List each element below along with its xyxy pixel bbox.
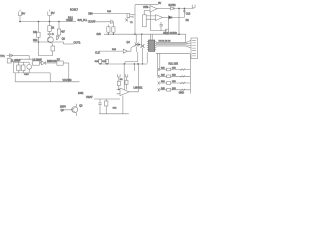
- op-amp U4: [117, 63, 144, 95]
- svg-text:10k: 10k: [33, 31, 38, 34]
- power flag right: [192, 5, 195, 9]
- crystal Y1: [125, 14, 135, 25]
- svg-text:3V3_PLL: 3V3_PLL: [78, 19, 89, 22]
- svg-text:LMV321: LMV321: [134, 87, 144, 90]
- svg-text:XIN: XIN: [88, 12, 92, 16]
- wire: input line: [14, 55, 30, 57]
- svg-text:22R: 22R: [172, 81, 176, 83]
- wire: long line right: [15, 81, 79, 83]
- svg-text:OUT1: OUT1: [74, 41, 81, 45]
- resistor R15: [95, 59, 102, 64]
- svg-text:L1 10uH: L1 10uH: [33, 59, 42, 62]
- capacitor C9: [105, 99, 108, 114]
- wire: mid line: [94, 98, 120, 100]
- svg-text:5V: 5V: [51, 11, 55, 15]
- resistor R7: [57, 59, 69, 66]
- svg-text:Q4: Q4: [127, 41, 131, 44]
- capacitor C8: [98, 99, 102, 114]
- ground drops: [15, 73, 50, 82]
- wire: top-left bus: [20, 21, 76, 23]
- IC U3: [147, 34, 157, 51]
- resistor RN2: [158, 75, 191, 78]
- capacitor C6: [160, 22, 164, 31]
- wire: [92, 13, 127, 15]
- resistor RN1: [158, 68, 191, 71]
- capacitor C2: [7, 59, 21, 64]
- node dot: [138, 44, 140, 46]
- wire: right out: [64, 43, 74, 45]
- resistor RN4: [158, 88, 191, 91]
- node junctions on bus: [19, 21, 60, 23]
- wire: diode2 drop: [168, 19, 170, 29]
- capacitor C4: [111, 20, 114, 27]
- svg-text:C31: C31: [113, 108, 118, 110]
- svg-text:XOUT: XOUT: [88, 19, 96, 23]
- svg-text:C12: C12: [186, 12, 191, 15]
- transistor Q6: [60, 104, 83, 116]
- power flag mid2: [125, 74, 128, 89]
- capacitor C1: [48, 33, 55, 37]
- wire: verticals down: [124, 64, 134, 90]
- mid net lines below IC: [100, 52, 148, 65]
- power flag V2: [48, 10, 55, 22]
- wire: base line: [33, 42, 64, 44]
- transistor Q1: [48, 36, 54, 43]
- wire to flag: [174, 7, 193, 9]
- capacitor C5: [183, 8, 186, 13]
- wire: left vertical: [13, 62, 15, 73]
- wire: IC out line: [156, 53, 190, 55]
- resistor R3: [57, 22, 65, 41]
- svg-text:100k: 100k: [78, 92, 84, 95]
- svg-text:Y1: Y1: [130, 22, 133, 24]
- svg-text:22R: 22R: [172, 88, 176, 90]
- svg-text:22R: 22R: [172, 68, 176, 70]
- diode D2: [169, 8, 185, 19]
- op-amp U1B: [146, 15, 168, 21]
- svg-text:R20: R20: [107, 11, 112, 13]
- resistor R5: [17, 62, 20, 73]
- power flag mid1: [117, 74, 120, 89]
- resistor R16: [102, 59, 108, 64]
- svg-text:R21 22R: R21 22R: [169, 63, 179, 66]
- svg-text:R16: R16: [102, 61, 107, 63]
- svg-text:BAT54: BAT54: [169, 4, 177, 7]
- wire: IC to rows verticals: [158, 53, 160, 76]
- wire: bottom line: [14, 72, 51, 74]
- resistor R9: [112, 27, 115, 34]
- resistor R10: [165, 29, 168, 34]
- transistor Q4: [135, 35, 139, 52]
- bus to connector: [156, 40, 191, 48]
- op-amp U1A: [144, 5, 170, 15]
- svg-text:22R: 22R: [172, 75, 176, 77]
- svg-text:Q2: Q2: [62, 37, 66, 40]
- wire: emitter bottom: [39, 46, 53, 56]
- wire: right vertical: [189, 54, 191, 94]
- wire: corner up: [134, 5, 136, 35]
- resistor R8: [107, 25, 110, 35]
- svg-text:R12: R12: [68, 16, 73, 20]
- svg-text:Q9: Q9: [61, 109, 65, 112]
- wire: [92, 21, 111, 23]
- wire: opamp gnd: [99, 96, 129, 114]
- diode D1: [169, 4, 177, 10]
- resistor RN3: [158, 81, 191, 84]
- transistor Q2: [57, 35, 59, 40]
- svg-text:MBR120: MBR120: [47, 60, 57, 63]
- wire: input arrow: [7, 54, 14, 57]
- buffer U2: [95, 45, 135, 54]
- svg-text:VOUT33: VOUT33: [63, 80, 73, 82]
- svg-text:5V: 5V: [22, 12, 26, 16]
- wire bottom: [151, 12, 167, 31]
- resistor R4: [51, 43, 55, 55]
- connector J1: [191, 38, 198, 59]
- svg-text:D0 D1 D2 D3: D0 D1 D2 D3: [159, 41, 172, 43]
- svg-text:3V3: 3V3: [97, 33, 102, 36]
- svg-text:C: C: [52, 33, 54, 36]
- svg-text:VDD: VDD: [143, 6, 148, 9]
- svg-text:CLK: CLK: [95, 52, 100, 55]
- svg-text:R8: R8: [120, 79, 124, 81]
- svg-text:GND: GND: [179, 92, 185, 95]
- wire: top line: [14, 61, 30, 63]
- svg-text:4k7: 4k7: [61, 31, 66, 34]
- wire: chain end down: [68, 63, 70, 82]
- wire down: [178, 8, 180, 34]
- svg-text:BC817: BC817: [70, 8, 78, 12]
- svg-text:R14: R14: [33, 39, 38, 42]
- wire: top net: [135, 4, 158, 6]
- power flag V1: [18, 10, 25, 22]
- transistor Q5: [141, 35, 145, 52]
- svg-text:Q6: Q6: [79, 105, 83, 108]
- svg-text:D2: D2: [186, 19, 190, 22]
- svg-text:TP1: TP1: [0, 54, 5, 58]
- inductor L1: [32, 59, 42, 66]
- relay K1: [143, 15, 147, 27]
- resistor R2: [48, 22, 55, 34]
- resistor R6: [22, 62, 25, 73]
- svg-text:1k: 1k: [52, 27, 55, 30]
- diode D3: [42, 61, 57, 65]
- svg-text:VBAT: VBAT: [86, 95, 93, 99]
- resistor R1: [33, 22, 40, 47]
- svg-text:OSC: OSC: [24, 74, 29, 76]
- wire: [15, 56, 41, 64]
- svg-text:5V: 5V: [158, 2, 161, 5]
- transistor Q3: [24, 62, 32, 76]
